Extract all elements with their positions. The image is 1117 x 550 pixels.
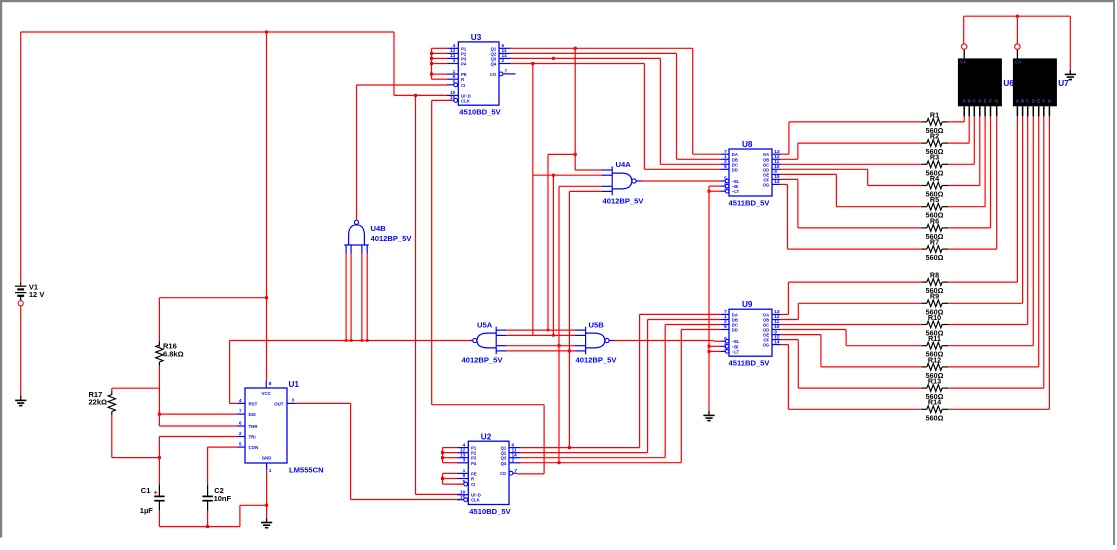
svg-text:E: E [984,99,987,104]
wire R17 top to R16/DIS column [112,388,160,391]
wire U9 OA to R8 [781,282,922,314]
node VCC junction at x=266.5 on top rail [265,31,268,34]
wire branch to R16 top [159,298,266,348]
node junction C2/ground bus [206,525,209,528]
svg-text:OG: OG [763,343,770,348]
svg-text:U4A: U4A [616,160,632,169]
wire U8 OC to R3 [781,163,922,165]
svg-text:R14: R14 [928,398,941,407]
wire R7 to U6 segment pin [948,116,997,249]
svg-text:R13: R13 [928,377,941,386]
node junctions U5 row3 / U2 Q4 [558,344,561,464]
wire R1 to U6 segment pin [948,116,964,122]
wire U4B input drops to RST net [345,254,369,342]
svg-text:10: 10 [774,164,780,170]
resistor R3 560 ohm [921,153,948,178]
svg-text:3: 3 [292,397,295,403]
svg-text:7: 7 [724,309,727,315]
wire R8 to U7 segment pin [948,116,1017,282]
node junction R17 bottom / C1 [158,456,161,459]
node junction CA rail [1016,15,1019,18]
wire U8 OG to R7 [781,184,922,249]
node junction U/~D net [414,94,417,97]
capacitor C1 1uF polarized [140,484,165,515]
nand-gate U5B 4012BP_5V [575,321,617,365]
node junction R16/DIS [158,413,161,416]
svg-text:DIS: DIS [249,412,256,417]
svg-text:R10: R10 [928,313,941,322]
wire U4A output to U8 ~EL [642,180,721,182]
counter U3 4510BD_5V [447,33,516,117]
wire R11 to U7 segment pin [948,116,1033,345]
wire U8 OD to R4 [781,169,922,185]
op-amp/timer U1 LM555CN [237,380,324,475]
wire common anode rail to ground [964,16,1071,69]
svg-text:1: 1 [269,468,272,474]
node junctions U2 preset bus [441,451,444,459]
svg-text:1µF: 1µF [140,506,153,515]
resistor R10 560 ohm [921,313,948,338]
svg-text:2: 2 [239,431,242,437]
svg-text:P4: P4 [461,62,467,67]
svg-text:R4: R4 [930,174,939,183]
wire U9 OE to R12 [781,335,922,367]
svg-text:CLK: CLK [471,498,480,503]
svg-text:CI: CI [461,83,465,88]
svg-text:R11: R11 [928,334,941,343]
svg-text:14: 14 [774,339,780,345]
node junction Q1/U4A tap [574,47,577,50]
svg-text:9: 9 [463,473,466,479]
resistor R9 560 ohm [921,292,948,317]
node junction U2 PE bus [441,477,444,480]
svg-text:CI: CI [471,482,475,487]
wire U8/U9 ~BI ~LT to ground [709,186,720,411]
svg-text:CA: CA [1015,60,1022,65]
wire U3 Q2 to U8 DB [511,53,721,159]
wire V1 negative to ground [20,306,22,396]
wire vertical U/~D net down to U2 pin 10 [416,95,461,494]
svg-text:7: 7 [515,468,518,474]
svg-text:U1: U1 [289,380,300,389]
wire U2 Q4 to U9 DD [520,330,721,463]
svg-text:8: 8 [269,381,272,387]
svg-text:OUT: OUT [274,401,284,406]
svg-text:4510BD_5V: 4510BD_5V [469,507,511,516]
svg-text:R12: R12 [928,355,941,364]
svg-text:14: 14 [512,452,518,458]
svg-text:U6: U6 [1003,79,1014,88]
7-segment display U6 [958,44,1014,117]
node junctions blanking net [708,190,711,353]
svg-text:15: 15 [460,494,466,500]
svg-text:U4B: U4B [371,224,387,233]
svg-text:9: 9 [453,74,456,80]
ground top right [1065,70,1076,80]
wire U3 CLK to U2 CO [432,100,544,474]
node junction U1 GND net [265,504,268,507]
svg-text:+: + [154,490,158,497]
svg-text:1: 1 [453,69,456,75]
svg-text:DD: DD [732,328,738,333]
nand-gate U4B 4012BP_5V vertical [344,220,412,254]
svg-text:4: 4 [463,442,466,448]
wire U3 preset bundle bus [432,48,448,79]
wire U2 Q2 to U9 DB [520,320,721,453]
svg-text:6: 6 [502,43,505,49]
svg-text:4012BP_5V: 4012BP_5V [371,234,413,243]
node junction Q3 tap [552,57,555,60]
wire R3 to U6 segment pin [948,116,974,164]
svg-text:VCC: VCC [262,391,272,396]
svg-text:R1: R1 [930,110,939,119]
svg-text:Q4: Q4 [491,62,497,67]
wire U3 U/~D feed (pin 10) [394,94,448,96]
wire U8 OB to R2 [781,143,922,159]
wire VCC drop to U1 pin 8 [266,32,268,380]
resistor R7 560 ohm [921,238,948,263]
svg-text:G: G [995,99,999,104]
wire U8 OA to R1 [781,122,922,154]
svg-text:R7: R7 [930,238,939,247]
wire U1 GND lead down [266,470,268,518]
svg-text:RST: RST [249,401,258,406]
resistor R4 560 ohm [921,174,948,199]
svg-text:DD: DD [732,167,738,172]
svg-text:5: 5 [239,442,242,448]
node junctions U5 row4 / U2 Q1 [568,349,571,449]
wire R12 to U7 segment pin [948,116,1039,367]
wire U8 OE to R5 [781,174,922,206]
svg-text:R9: R9 [930,292,939,301]
svg-text:CA: CA [960,60,967,65]
svg-text:R2: R2 [930,132,939,141]
wire R6 to U6 segment pin [948,116,991,227]
svg-text:3: 3 [724,346,727,352]
wire U9 OG to R14 [781,345,922,410]
svg-text:7: 7 [239,409,242,415]
svg-text:10: 10 [774,324,780,330]
resistor R5 560 ohm [921,195,948,220]
svg-text:7: 7 [724,149,727,155]
svg-text:4: 4 [453,43,456,49]
svg-text:OG: OG [763,182,770,187]
wire Q1 drop to U4A input 1 [575,48,601,170]
node junction U5 row2 end [552,334,555,337]
svg-text:U7: U7 [1058,79,1069,88]
svg-text:4012BP_5V: 4012BP_5V [462,355,504,364]
wire U3 Q1 to U8 DA [511,48,721,154]
svg-text:13: 13 [774,149,780,155]
wire Q3 tap vertical to U5 row 2 [552,175,554,335]
svg-text:GND: GND [262,456,272,461]
wire C2 bottom to ground bus [207,511,209,527]
wire U9 OF to R13 [781,340,922,389]
svg-text:~LT: ~LT [732,189,740,194]
wire U3 Q4 to U8 DD [511,64,721,170]
resistor R14 560 ohm [921,398,948,423]
resistor R17 22k vertical [89,390,116,415]
svg-text:3: 3 [724,186,727,192]
svg-text:LM555CN: LM555CN [289,466,324,475]
wire VCC top rail from V1 to U3 column [21,32,394,282]
svg-text:CON: CON [249,445,259,450]
svg-text:E: E [1037,99,1040,104]
wire U5A output to U1 RST and U4B inputs [230,341,473,404]
wire R4 to U6 segment pin [948,116,980,185]
svg-text:R: R [471,477,474,482]
svg-text:R: R [461,77,464,82]
svg-text:4: 4 [724,181,727,187]
svg-text:4511BD_5V: 4511BD_5V [729,359,771,368]
resistor R6 560 ohm [921,216,948,241]
wire U5 shared input rows [507,330,575,351]
wire U2 Q1 riser to U4A input 4 and U5 row 4 [569,191,601,447]
svg-text:P4: P4 [471,461,477,466]
svg-text:CO: CO [500,471,507,476]
svg-text:13: 13 [450,53,456,59]
svg-text:14: 14 [774,179,780,185]
wire U8 OF to R6 [781,179,922,228]
svg-text:2: 2 [512,458,515,464]
nand-gate U5A 4012BP_5V mirrored [462,321,507,365]
wire U9 OB to R9 [781,303,922,319]
wire R17 bottom to TRI/C1 column [112,415,160,458]
svg-text:6: 6 [724,164,727,170]
wire U9 OD to R11 [781,330,922,346]
wire Q4 drop to U4A input 2 and U5 row 2 [533,64,602,336]
wire U2 Q3 to U9 DC [520,325,721,458]
resistor R8 560 ohm [921,271,948,296]
wire U2 preset bundle bus P1-P4 [443,448,458,463]
resistor R2 560 ohm [921,132,948,157]
resistor R11 560 ohm [921,334,948,359]
svg-text:22kΩ: 22kΩ [89,398,108,407]
wire R10 to U7 segment pin [948,116,1028,324]
wire R13 to U7 segment pin [948,116,1044,388]
svg-text:~LT: ~LT [732,349,740,354]
svg-text:Q4: Q4 [501,461,507,466]
svg-text:4: 4 [239,398,242,404]
node junctions U3 preset bus [430,52,433,76]
svg-text:3: 3 [463,458,466,464]
svg-text:5: 5 [724,176,727,182]
battery V1 12 V [15,282,44,306]
svg-text:U5A: U5A [477,321,493,330]
svg-text:560Ω: 560Ω [926,413,944,422]
svg-text:CO: CO [490,72,497,77]
svg-text:2: 2 [502,58,505,64]
wire R2 to U6 segment pin [948,116,969,143]
svg-text:TRI: TRI [249,435,256,440]
svg-text:6: 6 [239,421,242,427]
svg-text:13: 13 [460,452,466,458]
wire U2 Q1 to U9 DA [520,314,721,447]
wire R5 to U6 segment pin [948,116,985,206]
svg-text:6: 6 [512,442,515,448]
wire U9 OC to R10 [781,324,922,326]
svg-text:U8: U8 [742,140,753,149]
node junction U5 row1 end [547,329,550,332]
svg-text:13: 13 [774,309,780,315]
wire R16 bottom to U1 DIS and THR [159,366,237,427]
capacitor C2 10nF [202,485,231,511]
svg-text:U5B: U5B [589,321,605,330]
svg-text:14: 14 [502,53,508,59]
svg-text:G: G [1048,99,1052,104]
svg-text:1: 1 [463,468,466,474]
wire ground bus C1/C2 to U1 GND [159,505,266,526]
svg-text:5: 5 [453,80,456,86]
svg-text:4511BD_5V: 4511BD_5V [729,199,771,208]
svg-text:10nF: 10nF [214,494,232,503]
svg-text:R8: R8 [930,271,939,280]
svg-text:R3: R3 [930,153,939,162]
decoder U8 4511BD_5V [720,140,780,208]
resistor R1 560 ohm [921,110,948,135]
svg-text:4: 4 [724,341,727,347]
wire U4B output to U3 CI [357,85,448,220]
svg-text:THR: THR [249,424,259,429]
decoder U9 4511BD_5V [720,300,780,368]
svg-text:R5: R5 [930,195,939,204]
wire C1 bottom to ground bus [158,511,160,527]
node junction Q4 tap [531,62,534,65]
svg-text:U2: U2 [481,432,492,441]
resistor R12 560 ohm [921,355,948,380]
svg-text:4012BP_5V: 4012BP_5V [576,355,618,364]
nand-gate U4A 4012BP_5V [602,160,645,205]
wire U2 PE/R/CI bundle bus [443,473,465,484]
svg-text:U9: U9 [742,300,753,309]
7-segment display U7 [1013,44,1069,117]
svg-text:6.8kΩ: 6.8kΩ [163,350,184,359]
svg-text:3: 3 [453,58,456,64]
ground below V1 [15,396,26,406]
svg-text:7: 7 [505,69,508,75]
svg-text:560Ω: 560Ω [926,253,944,262]
svg-text:F: F [1042,99,1045,104]
svg-text:12 V: 12 V [29,290,44,299]
wire U2 Q4 riser to U4A input 3 and U5 row 3 [559,186,602,462]
ground below U1 [261,518,272,528]
node junction U4A in1 branch [574,153,577,156]
wire R14 to U7 segment pin [948,116,1049,409]
node junction VCC to R16 branch [265,296,268,299]
svg-text:CLK: CLK [461,98,470,103]
svg-text:6: 6 [724,324,727,330]
wire U1 TRI to C1 top [159,437,237,485]
ground below U9 [703,411,714,421]
wire U1 CON to C2 top [208,447,237,485]
svg-text:4012BP_5V: 4012BP_5V [603,196,645,205]
svg-text:R6: R6 [930,216,939,225]
wire U3 Q3 to U8 DC [511,58,721,164]
resistor R16 6.8k vertical [156,341,184,365]
node junction U4A in2 row [552,174,555,177]
resistor R13 560 ohm [921,377,948,402]
svg-text:U3: U3 [471,33,482,42]
wire U1 OUT to U2 CLK [295,403,460,499]
svg-text:4510BD_5V: 4510BD_5V [459,108,501,117]
wire R9 to U7 segment pin [948,116,1023,303]
svg-text:C1: C1 [141,486,151,495]
svg-text:F: F [989,99,992,104]
wire U5B output to U9 ~EL [614,340,720,343]
svg-text:5: 5 [724,336,727,342]
counter U2 4510BD_5V [457,432,521,516]
wire branch to U5 row 1 [548,154,575,330]
